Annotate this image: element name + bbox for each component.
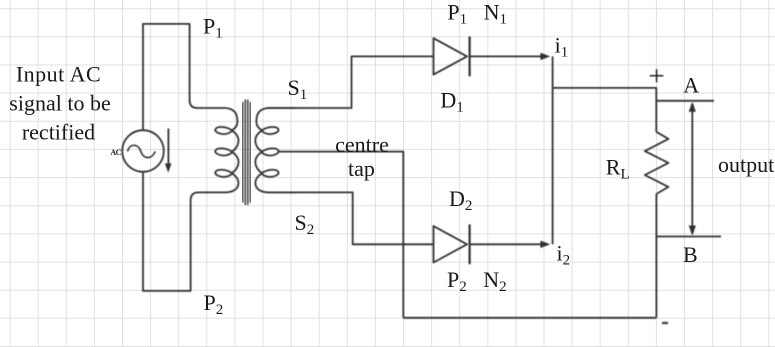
- minus sign: [662, 322, 668, 324]
- resistor RL: [645, 132, 669, 194]
- svg-text:centre: centre: [335, 132, 389, 157]
- svg-text:rectified: rectified: [22, 119, 95, 144]
- arrowhead node i1: [540, 53, 550, 60]
- wire node i1 to load top: [553, 88, 657, 132]
- output arrow stem: [691, 105, 693, 234]
- arrowhead node i2: [540, 241, 550, 248]
- AC source sine wave: [128, 145, 156, 157]
- wire S1 to diode D1: [267, 56, 434, 108]
- transformer T1 core: [243, 100, 251, 206]
- transformer T1 secondary winding: [255, 108, 296, 192]
- diode D1 cathode bar: [469, 37, 471, 77]
- svg-text:signal to be: signal to be: [9, 90, 110, 115]
- wire bottom return: [403, 317, 656, 319]
- svg-text:A: A: [683, 73, 699, 98]
- AC source V1 circle: [122, 130, 164, 172]
- svg-text:B: B: [683, 242, 698, 267]
- svg-text:AC: AC: [110, 148, 121, 157]
- svg-text:tap: tap: [348, 156, 375, 181]
- AC source current arrow stem: [167, 129, 169, 168]
- arrowhead AC current: [165, 163, 172, 172]
- wire centre tap: [279, 152, 404, 318]
- diode D1: [434, 38, 468, 74]
- svg-text:P1 N1: P1 N1: [447, 0, 507, 27]
- wire D2 to node i2: [470, 243, 546, 245]
- terminal line B: [656, 236, 721, 238]
- transformer T1 primary winding: [197, 108, 238, 192]
- wire S2 to diode D2: [267, 192, 434, 244]
- wire junction vertical i1 to i2: [552, 56, 554, 244]
- diode D2 cathode bar: [469, 224, 471, 264]
- diode D2: [434, 226, 468, 262]
- wire D1 to node i1: [470, 55, 546, 57]
- plus sign: [650, 69, 664, 82]
- arrowhead output bottom: [689, 226, 696, 236]
- wire resistor to B and down: [655, 194, 657, 318]
- svg-text:output: output: [718, 152, 774, 177]
- wire primary top P1 loop: [143, 24, 198, 131]
- svg-text:Input AC: Input AC: [16, 61, 101, 86]
- wire primary bottom P2 loop: [143, 172, 199, 291]
- arrowhead output top: [689, 102, 696, 112]
- terminal line A: [656, 100, 714, 102]
- svg-text:P2 N2: P2 N2: [447, 267, 507, 295]
